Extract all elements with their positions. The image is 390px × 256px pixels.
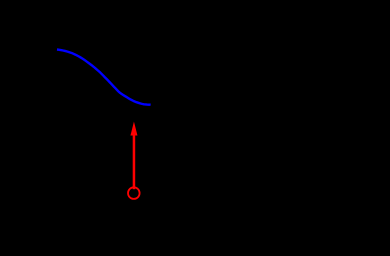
red annotation arrow shaft bbox=[133, 136, 136, 190]
red open circle marker bbox=[128, 187, 140, 199]
blue sigmoid curve bbox=[57, 50, 151, 105]
red arrowhead bbox=[130, 122, 137, 136]
